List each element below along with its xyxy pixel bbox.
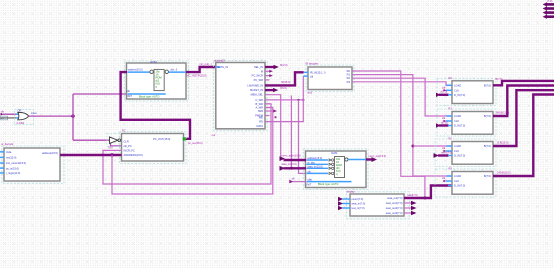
svg-text:Block type: AUTO: Block type: AUTO [139, 94, 159, 98]
wire net P2 [112, 108, 273, 195]
svg-text:CLR: CLR [124, 139, 129, 143]
svg-text:LOAD: LOAD [454, 174, 461, 178]
wire uut r8 clk net [265, 99, 303, 101]
display U9 block [350, 194, 404, 216]
R2 clk arrow [443, 150, 452, 153]
selection box R0 [437, 79, 496, 106]
svg-text:Cout: Cout [31, 111, 37, 115]
svg-text:B(7:0): B(7:0) [484, 144, 491, 148]
pin stub cyan OR in2 [16, 117, 20, 119]
register R3 block [452, 172, 493, 195]
svg-text:SEL_IN: SEL_IN [254, 65, 263, 69]
bus uut to IR decoder [265, 72, 304, 85]
wire C LOAD branch [413, 145, 452, 147]
svg-text:clk: clk [442, 85, 446, 89]
svg-text:IWR: IWR [258, 109, 263, 113]
selection box R2 [435, 139, 496, 167]
svg-text:lead(7:0): lead(7:0) [408, 193, 418, 197]
pin stub addrdec 1 [0, 151, 5, 153]
selection box R3 [435, 169, 496, 197]
display input arrow 2 [338, 201, 350, 205]
wire uut r9 stub to P1 [265, 103, 271, 105]
svg-text:(15:0): (15:0) [280, 86, 287, 90]
R1 clk arrow [443, 120, 452, 123]
wire display out2 [404, 201, 417, 205]
wire cyan RAM addr [307, 159, 329, 161]
wire IR out4 [352, 82, 452, 86]
IR right pin labels [347, 69, 351, 84]
svg-text:PC_OUT(15:0): PC_OUT(15:0) [153, 137, 170, 141]
svg-text:M(2:0): M(2:0) [280, 63, 288, 67]
svg-text:test_in(7:0): test_in(7:0) [352, 206, 365, 210]
PC U5 block [122, 134, 184, 162]
svg-text:PC_INCR: PC_INCR [252, 74, 264, 78]
wire uut r12 stub [265, 115, 270, 117]
register R2 block [452, 142, 493, 165]
svg-text:seat_out2(7:0): seat_out2(7:0) [386, 206, 403, 210]
uut right pin labels [247, 65, 264, 128]
R3 clk arrow [443, 180, 452, 183]
pin stub IR in1 [304, 71, 308, 73]
svg-text:(7:0): (7:0) [547, 0, 552, 3]
svg-text:i_regis(11:0): i_regis(11:0) [6, 171, 21, 175]
wire uut r11 stub [265, 110, 274, 112]
svg-text:OR: OR [18, 109, 22, 113]
selection box display [347, 192, 410, 219]
register R0 block [452, 81, 493, 104]
R3 D_IN cyan stub [448, 185, 452, 187]
ROM inner green text [156, 70, 162, 89]
pin stub addrdec 5 [0, 172, 5, 174]
svg-text:D_IN(7:0): D_IN(7:0) [454, 93, 465, 97]
RAM U8 block [306, 151, 367, 188]
wire OR output [29, 115, 73, 117]
svg-text:DATA_IN: DATA_IN [218, 65, 229, 69]
wire RAM data arrow [280, 166, 307, 171]
pin stub R1 LOAD [447, 115, 453, 117]
svg-text:clk_PC: clk_PC [124, 144, 132, 148]
svg-text:clula: clula [6, 150, 12, 154]
svg-text:B_WR: B_WR [256, 102, 264, 106]
svg-text:mem_out(15:0): mem_out(15:0) [369, 154, 387, 158]
bus display out1 to R3 [404, 186, 452, 199]
port arrow r6 [273, 88, 278, 92]
svg-text:R0: R0 [449, 76, 453, 80]
wire uut r10 stub to P2 [265, 107, 273, 109]
bus ROM addres to PC loop [121, 72, 190, 139]
selection box inverter [107, 134, 123, 147]
net label box (left edge) [0, 116, 8, 120]
svg-text:R3: R3 [347, 80, 351, 84]
wire clk vertical to IR and r13 [265, 76, 303, 122]
svg-text:R1: R1 [347, 73, 351, 77]
wire uut r3 stub [265, 75, 270, 77]
svg-text:DATA: DATA [256, 124, 263, 128]
wire cyan RAM clk [307, 172, 329, 174]
svg-text:addres(15:0): addres(15:0) [128, 68, 143, 72]
svg-text:D_IN(7:0): D_IN(7:0) [454, 124, 465, 128]
OR gate U2 [18, 112, 29, 119]
junction r8 at 303.3 [302, 99, 304, 101]
RAM bubble right [345, 158, 348, 161]
junction node clk [71, 114, 74, 117]
R1 pin labels [454, 114, 465, 128]
svg-text:R1: R1 [449, 107, 453, 111]
uut U1 main block [216, 63, 265, 129]
port marker OUT3 [543, 10, 554, 14]
bus R1 out [493, 86, 554, 117]
svg-text:R2: R2 [449, 137, 453, 141]
svg-text:CLK: CLK [454, 119, 459, 123]
svg-text:clk: clk [442, 116, 446, 120]
svg-text:mir_out(...): mir_out(...) [200, 62, 213, 66]
svg-text:B(7:0): B(7:0) [484, 83, 491, 87]
svg-text:t3:B(15:0): t3:B(15:0) [497, 141, 509, 145]
svg-text:clk: clk [442, 176, 446, 180]
port marker OUT1 (top right) [543, 2, 554, 6]
R2 D_IN arrow [434, 153, 453, 158]
wire uut r7 to RAM addr [265, 95, 281, 159]
svg-text:B(7:0): B(7:0) [496, 77, 503, 81]
wire clk vertical to RAM [299, 100, 306, 173]
svg-text:seat_in(7:0): seat_in(7:0) [352, 202, 366, 206]
svg-text:INIT: INIT [127, 94, 132, 98]
R2 pin labels [454, 144, 465, 158]
pin stub addrdec 2 [0, 156, 5, 158]
svg-text:MEM_SEL: MEM_SEL [251, 93, 264, 97]
selection box ROM [125, 61, 189, 101]
svg-text:D_IN(7:0): D_IN(7:0) [454, 154, 465, 158]
wire clk to inverter [73, 139, 110, 141]
svg-text:C_WR: C_WR [255, 98, 263, 102]
svg-text:uut/ckt09: uut/ckt09 [214, 59, 225, 63]
junction IR out1 display [423, 197, 426, 200]
wire uut r2 stub [265, 70, 270, 72]
junction on address bus [110, 153, 113, 156]
pin stub R3 LOAD [447, 175, 453, 177]
svg-text:clk: clk [1, 110, 5, 114]
svg-text:IR(15:0): IR(15:0) [281, 80, 291, 84]
svg-text:addres(15:0): addres(15:0) [308, 156, 323, 160]
svg-text:ADDRESS(15:0): ADDRESS(15:0) [124, 153, 143, 157]
wire clk to ROM [73, 93, 128, 95]
ROM inner array rect [154, 69, 164, 90]
svg-text:seat_out(7:0): seat_out(7:0) [387, 196, 402, 200]
IR decoder U7 block [308, 67, 352, 90]
svg-text:uut: uut [212, 133, 216, 137]
svg-text:CLK: CLK [454, 149, 459, 153]
svg-text:IR_IN(15:1..0: IR_IN(15:1..0 [310, 71, 326, 75]
R1 D_IN arrow [436, 123, 452, 127]
register R1 block [452, 112, 493, 135]
svg-text:240:B(15:0): 240:B(15:0) [496, 111, 510, 115]
R3 pin labels [454, 174, 465, 188]
junction r8 at 298.5 [297, 99, 299, 101]
R0 pin labels [454, 83, 465, 97]
svg-text:R2: R2 [347, 76, 351, 80]
pin stub addrdec 4 [0, 167, 5, 169]
svg-text:LOAD: LOAD [454, 83, 461, 87]
selection box around OR gate [15, 110, 34, 125]
svg-text:MC_INSTR(15:0): MC_INSTR(15:0) [187, 74, 207, 78]
wire display out4 [404, 211, 417, 215]
bus address decoder to PC [60, 154, 122, 156]
svg-text:d(7:0): d(7:0) [441, 120, 448, 124]
port arrow r2 [269, 70, 273, 73]
svg-text:240:B(15:0): 240:B(15:0) [497, 171, 511, 175]
svg-text:mem(7:0): mem(7:0) [441, 150, 452, 154]
ROM bubble left [150, 70, 153, 73]
address decoder U6 block [4, 148, 60, 181]
svg-text:PC_WR: PC_WR [254, 78, 263, 82]
svg-text:CLK: CLK [454, 88, 459, 92]
svg-text:LOAD: LOAD [454, 114, 461, 118]
wire clk branch to PC [111, 140, 122, 146]
bus R2 out [493, 90, 554, 146]
pin stub R2 LOAD [447, 145, 453, 147]
pin stub R0 LOAD [447, 84, 453, 86]
svg-text:count(7:0): count(7:0) [352, 197, 364, 201]
wire IR out1 [352, 71, 425, 198]
selection box IR decoder [306, 65, 354, 92]
wire RAM out arrow [366, 157, 377, 162]
display input arrow 3 [338, 206, 350, 210]
wire IR out3 [352, 78, 452, 116]
svg-text:M: M [261, 69, 263, 73]
svg-text:inst_extend(15:0): inst_extend(15:0) [6, 161, 26, 165]
svg-text:display: display [347, 189, 356, 193]
svg-text:MAXET_IN: MAXET_IN [250, 88, 263, 92]
RAM inner array rect [335, 157, 345, 178]
wire clk vertical [72, 94, 74, 140]
svg-text:PC: PC [122, 129, 126, 133]
wire INCR_PC net P1 [103, 104, 271, 184]
svg-text:seat_out1(7:0): seat_out1(7:0) [386, 201, 403, 205]
svg-text:R0: R0 [347, 69, 351, 73]
wire uut r1 stub [265, 66, 274, 68]
svg-text:IR decoder: IR decoder [306, 62, 319, 66]
svg-text:ROM: ROM [151, 60, 157, 64]
bus ROM dout to uut [186, 67, 216, 72]
svg-text:INCR_PC: INCR_PC [124, 149, 136, 153]
display left pin labels [352, 197, 366, 210]
ROM U4 block [127, 63, 187, 99]
selection box uut [214, 61, 268, 131]
svg-text:mem_addr(15:0): mem_addr(15:0) [282, 153, 301, 157]
RAM inner triangles [329, 159, 334, 175]
svg-text:seat_out3(7:0): seat_out3(7:0) [386, 211, 403, 215]
svg-text:D_IN(7:0): D_IN(7:0) [454, 184, 465, 188]
selection box R1 [437, 109, 496, 136]
wire RAM clkb arrow [289, 180, 306, 184]
svg-text:ma(15:0): ma(15:0) [6, 156, 17, 160]
selection box address decoder [2, 146, 64, 184]
wire uut r6 stub [265, 89, 274, 91]
RAM inner green text [336, 157, 342, 176]
selection box RAM [304, 149, 369, 190]
svg-text:WE: WE [259, 116, 263, 120]
display input arrow 1 [338, 197, 350, 201]
ROM bubble right [165, 70, 168, 73]
R0 D_IN arrow [436, 93, 452, 97]
wire display out3 [404, 206, 417, 210]
pin stub addrdec 3 [0, 162, 5, 164]
svg-text:I_MAXWE_IN: I_MAXWE_IN [247, 83, 263, 87]
port arrow r11 [273, 110, 277, 113]
svg-text:Block type: AUTO: Block type: AUTO [318, 182, 338, 186]
svg-text:LOAD: LOAD [454, 144, 461, 148]
R0 clk arrow [443, 89, 452, 92]
svg-text:2-OR1: 2-OR1 [17, 121, 25, 125]
bus R0 out [493, 81, 554, 85]
wire cyan RAM dout [348, 159, 366, 161]
svg-text:d(n..0: d(n..0 [171, 67, 178, 71]
svg-text:clk: clk [442, 146, 446, 150]
svg-text:uut2: uut2 [307, 91, 313, 95]
svg-text:CLK: CLK [454, 179, 459, 183]
port arrow r3 [269, 74, 273, 77]
svg-text:RD: RD [259, 120, 263, 124]
svg-text:clk: clk [292, 176, 296, 180]
wire cyan RAM wdat [307, 163, 329, 165]
port marker OUT4 [543, 15, 554, 19]
wire RAM addr arrow [280, 156, 307, 161]
svg-text:data_in(15:0): data_in(15:0) [282, 162, 297, 166]
junction dot r12 [274, 116, 276, 118]
display right pin labels [386, 196, 403, 215]
svg-text:RAM: RAM [332, 151, 338, 155]
bus R3 out [493, 95, 554, 177]
wire cyan RAM clkb [307, 181, 352, 183]
pin stub cyan OR in1 [16, 113, 20, 115]
svg-text:A_WR: A_WR [256, 106, 264, 110]
svg-text:pc_in(15:0): pc_in(15:0) [6, 166, 19, 170]
svg-text:INIT: INIT [307, 182, 312, 186]
pin square green PC_OUT [183, 137, 186, 140]
junction node at inverter branch [109, 139, 112, 142]
svg-text:pc_out(15:0): pc_out(15:0) [188, 141, 203, 145]
wire cyan ROM addr internal [128, 71, 151, 73]
wire vertical to RAM data [290, 96, 292, 169]
port marker OUT2 [543, 6, 554, 10]
input port marker clk (top-left) [1, 113, 17, 116]
wire gray into OR gate [0, 117, 16, 119]
wire uut r4 stub [265, 79, 270, 81]
svg-text:address(15:0): address(15:0) [42, 151, 58, 155]
pin stub DATA_IN [216, 66, 220, 68]
wire cyan ROM clk internal [128, 93, 166, 95]
svg-text:B(7:0): B(7:0) [484, 174, 491, 178]
port arrow r1 [274, 65, 279, 69]
junction RAM data [290, 167, 293, 170]
wire cyan ROM dout internal [169, 71, 187, 73]
selection box PC [120, 132, 187, 164]
svg-text:d(7:0): d(7:0) [441, 90, 448, 94]
svg-text:B(7:0): B(7:0) [484, 114, 491, 118]
pin stub IR clk [303, 75, 308, 77]
wire IR out2 [352, 75, 452, 176]
svg-text:INV: INV [109, 146, 114, 150]
inverter U3 [110, 137, 121, 143]
svg-text:ur_decode: ur_decode [1, 142, 14, 146]
svg-text:R3: R3 [449, 167, 453, 171]
wire cyan RAM datain [307, 167, 329, 169]
junction IR out2 branch [411, 145, 414, 148]
